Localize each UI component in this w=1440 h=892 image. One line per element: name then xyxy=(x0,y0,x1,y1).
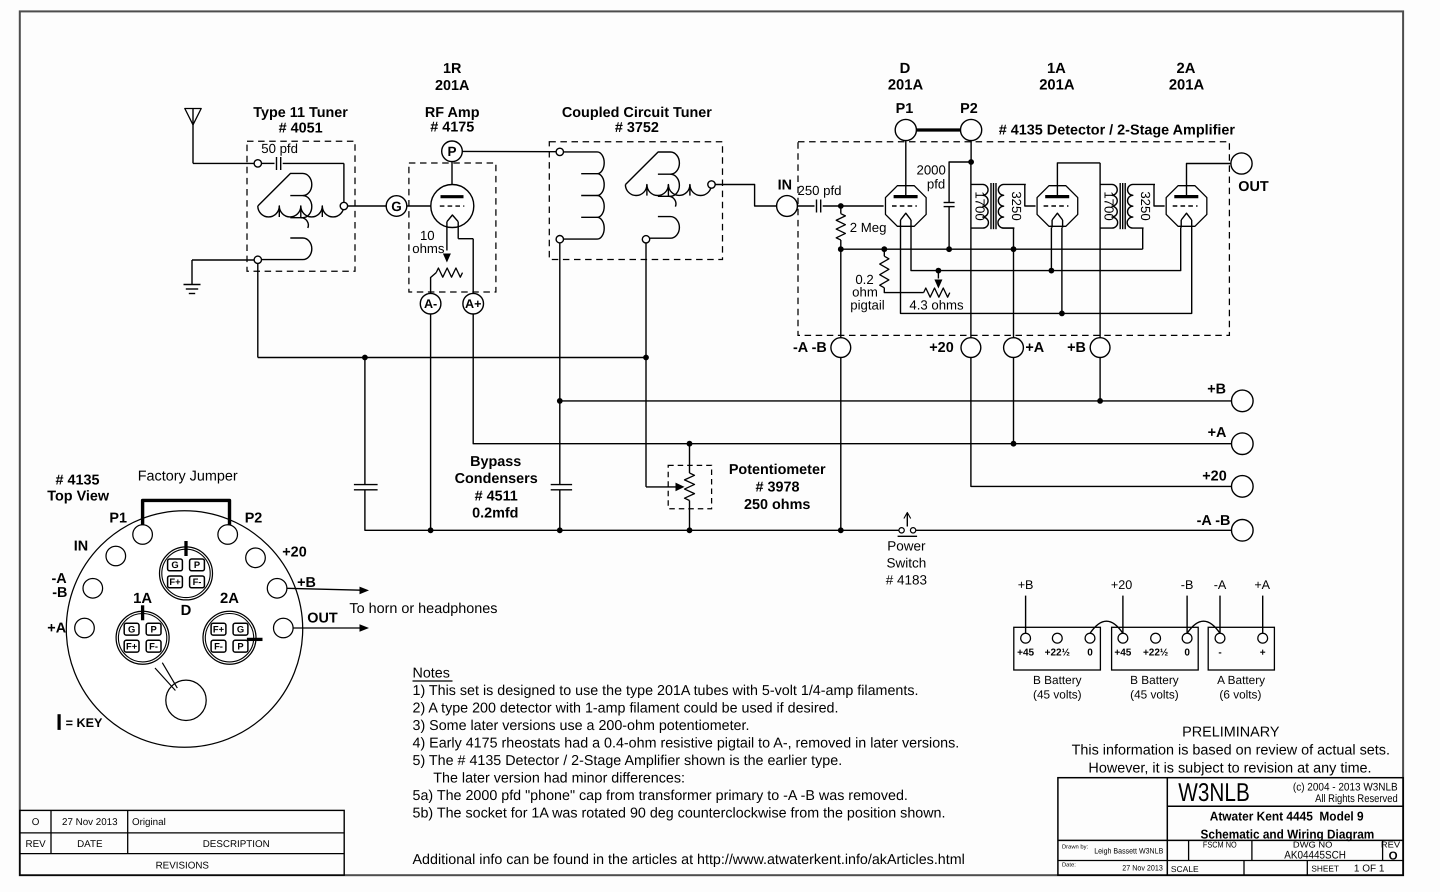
svg-text:(c) 2004 - 2013 W3NLB: (c) 2004 - 2013 W3NLB xyxy=(1293,781,1398,793)
svg-text:1 OF 1: 1 OF 1 xyxy=(1354,864,1385,875)
svg-text:-A -B: -A -B xyxy=(793,340,827,356)
svg-text:D: D xyxy=(181,603,192,619)
svg-text:SCALE: SCALE xyxy=(1171,864,1199,874)
svg-text:B Battery: B Battery xyxy=(1130,673,1179,687)
svg-text:201A: 201A xyxy=(435,78,470,94)
svg-text:DWG NO: DWG NO xyxy=(1293,839,1333,849)
svg-text:-: - xyxy=(1218,647,1221,658)
svg-text:+20: +20 xyxy=(929,340,953,356)
svg-text:Type 11 Tuner: Type 11 Tuner xyxy=(253,105,348,121)
svg-text:P1: P1 xyxy=(109,511,127,527)
svg-text:-A -B: -A -B xyxy=(1197,513,1231,529)
svg-text:201A: 201A xyxy=(888,78,924,94)
svg-text:27 Nov 2013: 27 Nov 2013 xyxy=(62,817,118,828)
svg-text:SHEET: SHEET xyxy=(1311,863,1339,873)
svg-text:However, it is subject to revi: However, it is subject to revision at an… xyxy=(1088,761,1371,777)
svg-text:Factory Jumper: Factory Jumper xyxy=(138,469,238,485)
svg-text:250 ohms: 250 ohms xyxy=(744,497,810,513)
svg-text:Notes: Notes xyxy=(413,666,450,682)
svg-text:3250: 3250 xyxy=(1138,191,1153,220)
svg-text:# 4175: # 4175 xyxy=(430,120,474,136)
svg-text:To horn or headphones: To horn or headphones xyxy=(349,601,497,617)
svg-text:3) Some later versions use a 2: 3) Some later versions use a 200-ohm pot… xyxy=(413,718,750,734)
svg-text:A+: A+ xyxy=(465,297,481,311)
svg-text:1R: 1R xyxy=(443,61,462,77)
svg-text:(6 volts): (6 volts) xyxy=(1219,687,1261,701)
svg-text:A-: A- xyxy=(424,297,437,311)
svg-text:Potentiometer: Potentiometer xyxy=(729,462,826,478)
svg-text:All Rights Reserved: All Rights Reserved xyxy=(1315,793,1398,805)
svg-text:OUT: OUT xyxy=(307,611,338,627)
svg-text:Drawn by:: Drawn by: xyxy=(1062,844,1088,851)
svg-text:+45: +45 xyxy=(1017,647,1034,658)
svg-text:Condensers: Condensers xyxy=(455,471,538,487)
svg-text:pfd: pfd xyxy=(927,177,945,192)
svg-text:IN: IN xyxy=(74,539,88,555)
svg-text:201A: 201A xyxy=(1039,78,1075,94)
svg-text:REVISIONS: REVISIONS xyxy=(156,860,210,871)
svg-text:+A: +A xyxy=(1254,578,1270,592)
svg-text:0: 0 xyxy=(1184,647,1190,658)
svg-text:The later version had minor di: The later version had minor differences: xyxy=(433,771,685,787)
svg-text:+B: +B xyxy=(1018,578,1034,592)
svg-text:201A: 201A xyxy=(1169,78,1205,94)
svg-text:REV: REV xyxy=(1381,839,1401,849)
svg-text:2A: 2A xyxy=(1177,61,1196,77)
svg-text:REV: REV xyxy=(26,839,47,850)
svg-text:Bypass: Bypass xyxy=(470,454,521,470)
svg-text:+A: +A xyxy=(1208,425,1227,441)
svg-text:50 pfd: 50 pfd xyxy=(261,141,298,156)
svg-text:G: G xyxy=(391,199,402,214)
svg-text:# 4135 Detector / 2-Stage Ampl: # 4135 Detector / 2-Stage Amplifier xyxy=(999,123,1236,139)
svg-text:F+: F+ xyxy=(169,576,181,587)
svg-text:PRELIMINARY: PRELIMINARY xyxy=(1182,725,1280,741)
svg-text:+A: +A xyxy=(1025,340,1044,356)
svg-text:+A: +A xyxy=(47,620,66,636)
svg-text:4.3 ohms: 4.3 ohms xyxy=(909,298,964,313)
svg-text:1A: 1A xyxy=(1047,61,1066,77)
svg-text:F-: F- xyxy=(193,576,202,587)
svg-text:W3NLB: W3NLB xyxy=(1178,779,1250,807)
svg-text:# 4051: # 4051 xyxy=(279,121,323,137)
svg-text:F-: F- xyxy=(149,641,158,652)
svg-text:# 3752: # 3752 xyxy=(615,120,659,136)
svg-text:P1: P1 xyxy=(896,101,914,117)
svg-text:Date:: Date: xyxy=(1062,863,1076,869)
svg-text:3250: 3250 xyxy=(1009,191,1024,220)
svg-text:+22½: +22½ xyxy=(1143,647,1168,658)
svg-text:This information is based on r: This information is based on review of a… xyxy=(1072,742,1390,758)
svg-text:0: 0 xyxy=(1087,647,1093,658)
svg-text:P: P xyxy=(150,624,156,635)
svg-text:Top View: Top View xyxy=(47,488,110,504)
svg-text:-A: -A xyxy=(1214,578,1227,592)
svg-text:F+: F+ xyxy=(213,624,225,635)
svg-text:2A: 2A xyxy=(220,591,239,607)
svg-text:1) This set is designed to use: 1) This set is designed to use the type … xyxy=(413,683,919,699)
svg-text:= KEY: = KEY xyxy=(66,716,103,730)
svg-text:A Battery: A Battery xyxy=(1217,673,1265,687)
svg-text:P: P xyxy=(194,559,200,570)
svg-text:Coupled Circuit Tuner: Coupled Circuit Tuner xyxy=(562,105,712,121)
svg-text:# 3978: # 3978 xyxy=(755,480,799,496)
svg-text:1700: 1700 xyxy=(973,191,988,220)
svg-text:G: G xyxy=(171,559,178,570)
svg-text:# 4135: # 4135 xyxy=(55,473,99,489)
svg-text:ohms: ohms xyxy=(412,241,445,256)
svg-text:RF Amp: RF Amp xyxy=(425,105,480,121)
svg-text:(45 volts): (45 volts) xyxy=(1033,687,1082,701)
svg-text:P2: P2 xyxy=(960,101,978,117)
svg-text:G: G xyxy=(237,624,244,635)
svg-text:# 4511: # 4511 xyxy=(475,489,518,505)
svg-text:+20: +20 xyxy=(282,545,306,561)
svg-text:DATE: DATE xyxy=(77,839,103,850)
svg-text:-B: -B xyxy=(1181,578,1194,592)
svg-text:Atwater Kent 4445 Model 9: Atwater Kent 4445 Model 9 xyxy=(1210,810,1364,824)
svg-text:# 4183: # 4183 xyxy=(886,572,927,587)
svg-text:FSCM NO: FSCM NO xyxy=(1203,839,1237,849)
svg-text:2 Meg: 2 Meg xyxy=(850,220,887,235)
svg-text:O: O xyxy=(32,817,40,828)
svg-text:P: P xyxy=(237,641,243,652)
svg-text:Original: Original xyxy=(132,817,166,828)
svg-text:pigtail: pigtail xyxy=(850,297,885,312)
svg-text:5) The # 4135 Detector / 2-Sta: 5) The # 4135 Detector / 2-Stage Amplifi… xyxy=(413,753,843,769)
svg-text:Switch: Switch xyxy=(887,555,927,570)
svg-text:OUT: OUT xyxy=(1238,179,1269,195)
svg-text:2) A type 200 detector with 1-: 2) A type 200 detector with 1-amp filame… xyxy=(413,701,839,717)
svg-text:+20: +20 xyxy=(1202,469,1226,485)
svg-text:AK04445SCH: AK04445SCH xyxy=(1284,849,1346,861)
svg-text:Power: Power xyxy=(887,539,926,554)
svg-text:P2: P2 xyxy=(245,511,263,527)
svg-text:+22½: +22½ xyxy=(1045,647,1070,658)
svg-text:F-: F- xyxy=(214,641,223,652)
svg-text:-B: -B xyxy=(52,585,67,601)
svg-text:4) Early 4175 rheostats had a: 4) Early 4175 rheostats had a 0.4-ohm re… xyxy=(413,736,960,752)
svg-text:1A: 1A xyxy=(133,591,152,607)
svg-text:G: G xyxy=(128,624,135,635)
svg-text:D: D xyxy=(900,61,911,77)
svg-text:+45: +45 xyxy=(1114,647,1131,658)
svg-text:Leigh Bassett W3NLB: Leigh Bassett W3NLB xyxy=(1094,846,1163,855)
svg-text:250 pfd: 250 pfd xyxy=(798,183,842,198)
svg-text:Additional info can be found i: Additional info can be found in the arti… xyxy=(413,852,965,868)
svg-text:(45 volts): (45 volts) xyxy=(1130,687,1179,701)
svg-text:+20: +20 xyxy=(1111,578,1132,592)
svg-text:+B: +B xyxy=(1207,382,1226,398)
svg-text:1700: 1700 xyxy=(1102,191,1117,220)
svg-text:+B: +B xyxy=(1067,340,1086,356)
svg-text:5a) The 2000 pfd "phone" cap f: 5a) The 2000 pfd "phone" cap from transf… xyxy=(413,788,908,804)
svg-text:F+: F+ xyxy=(126,641,138,652)
svg-text:5b) The socket for 1A was rota: 5b) The socket for 1A was rotated 90 deg… xyxy=(413,806,946,822)
svg-text:0.2mfd: 0.2mfd xyxy=(472,505,518,521)
svg-text:+: + xyxy=(1260,647,1266,658)
svg-text:IN: IN xyxy=(778,177,792,193)
svg-text:P: P xyxy=(447,144,456,159)
svg-text:27 Nov 2013: 27 Nov 2013 xyxy=(1122,864,1163,873)
svg-text:O: O xyxy=(1389,850,1398,862)
svg-text:2000: 2000 xyxy=(917,163,946,178)
svg-text:B Battery: B Battery xyxy=(1033,673,1082,687)
svg-text:DESCRIPTION: DESCRIPTION xyxy=(203,839,270,850)
